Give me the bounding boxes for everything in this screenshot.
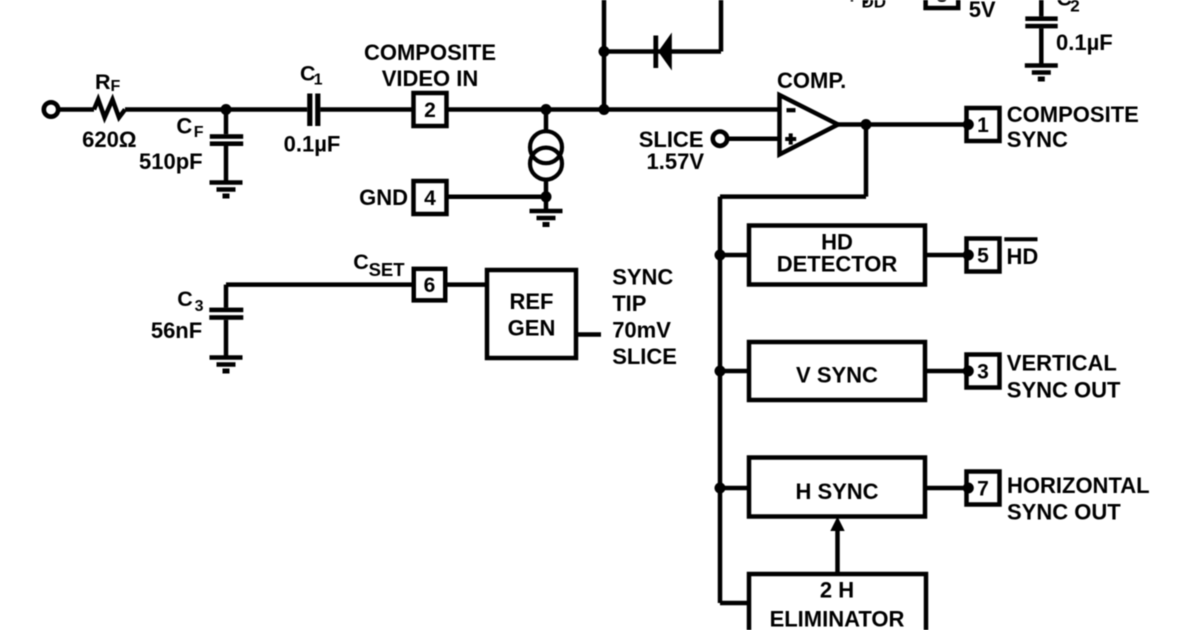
- svg-text:1.57V: 1.57V: [647, 149, 705, 174]
- svg-text:5V: 5V: [969, 0, 996, 22]
- svg-text:2: 2: [1070, 0, 1079, 16]
- svg-text:SLICE: SLICE: [612, 344, 677, 369]
- svg-text:V SYNC: V SYNC: [796, 363, 878, 388]
- svg-text:ELIMINATOR: ELIMINATOR: [770, 607, 905, 630]
- svg-text:COMP.: COMP.: [777, 68, 846, 93]
- svg-text:SYNC OUT: SYNC OUT: [1007, 378, 1121, 403]
- svg-text:510pF: 510pF: [139, 149, 203, 174]
- svg-text:3: 3: [977, 361, 989, 384]
- svg-text:8: 8: [936, 0, 948, 7]
- svg-text:4: 4: [424, 187, 436, 210]
- svg-text:GEN: GEN: [508, 316, 556, 341]
- svg-text:DD: DD: [862, 0, 887, 12]
- svg-text:HD: HD: [1007, 244, 1039, 269]
- svg-text:REF: REF: [510, 289, 554, 314]
- svg-text:COMPOSITE: COMPOSITE: [364, 40, 496, 65]
- svg-text:GND: GND: [359, 185, 408, 210]
- svg-text:7: 7: [977, 478, 989, 501]
- svg-text:COMPOSITE: COMPOSITE: [1007, 102, 1139, 127]
- svg-text:1: 1: [314, 72, 323, 89]
- svg-text:70mV: 70mV: [612, 318, 671, 343]
- svg-text:R: R: [95, 70, 111, 94]
- svg-text:6: 6: [424, 274, 436, 297]
- svg-text:HORIZONTAL: HORIZONTAL: [1007, 473, 1150, 498]
- svg-text:C: C: [176, 114, 192, 139]
- svg-text:TIP: TIP: [612, 291, 646, 316]
- svg-text:VIDEO IN: VIDEO IN: [382, 66, 479, 91]
- svg-text:SYNC: SYNC: [1007, 127, 1068, 152]
- svg-text:C: C: [353, 250, 369, 274]
- svg-text:0.1µF: 0.1µF: [1056, 30, 1113, 55]
- svg-text:SET: SET: [369, 259, 406, 280]
- svg-text:H SYNC: H SYNC: [795, 479, 878, 504]
- svg-text:DETECTOR: DETECTOR: [777, 251, 898, 276]
- svg-text:2 H: 2 H: [820, 578, 854, 603]
- svg-text:620Ω: 620Ω: [82, 127, 136, 152]
- svg-text:0.1µF: 0.1µF: [284, 132, 341, 157]
- svg-text:1: 1: [977, 114, 989, 137]
- svg-text:2: 2: [424, 99, 436, 122]
- svg-text:5: 5: [977, 245, 989, 268]
- svg-text:F: F: [194, 124, 204, 141]
- svg-text:F: F: [111, 78, 121, 95]
- svg-text:3: 3: [195, 298, 204, 315]
- svg-text:VERTICAL: VERTICAL: [1007, 351, 1117, 376]
- svg-text:C: C: [177, 287, 193, 311]
- svg-text:SYNC: SYNC: [612, 265, 673, 290]
- svg-text:SYNC OUT: SYNC OUT: [1007, 500, 1121, 525]
- svg-text:56nF: 56nF: [151, 318, 202, 343]
